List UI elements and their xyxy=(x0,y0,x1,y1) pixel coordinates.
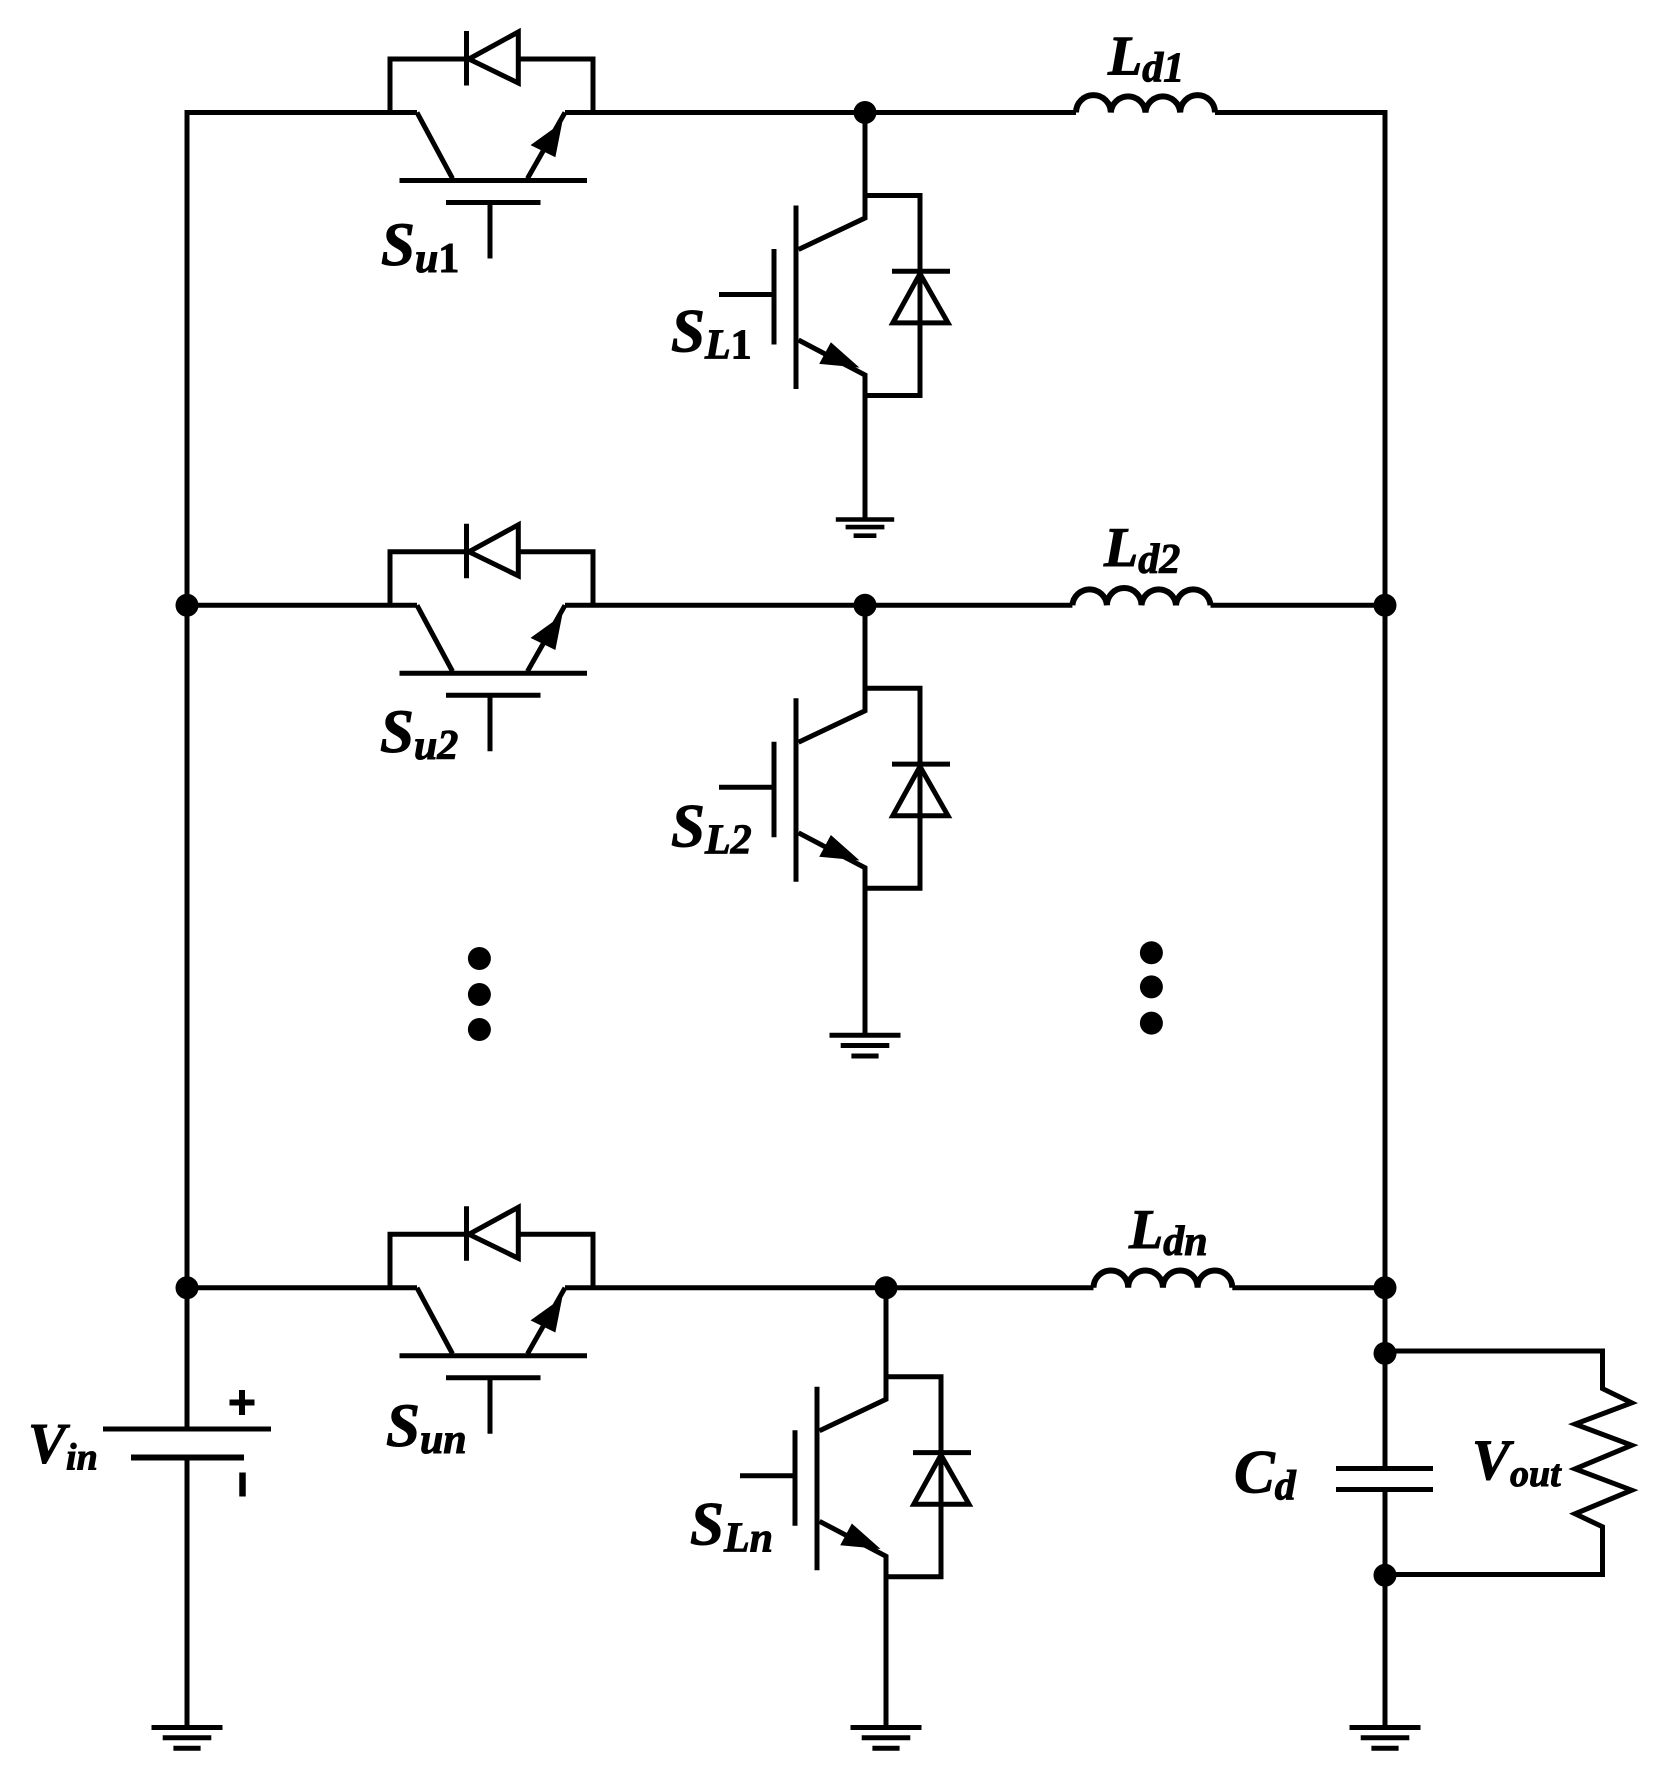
label Ld1 xyxy=(1107,26,1184,92)
node right bus row n (junction dot) xyxy=(1374,1276,1397,1299)
wire output node to load (top) xyxy=(1385,1349,1603,1354)
svg-text:Su2: Su2 xyxy=(380,699,458,769)
wire Sun emitter to phase node xyxy=(565,1285,1094,1290)
svg-text:Sun: Sun xyxy=(386,1393,467,1463)
diode DL2 (anti-parallel with SL2) xyxy=(865,688,950,888)
ground at SL2 emitter xyxy=(830,1035,901,1056)
resistor load (zigzag) xyxy=(1575,1349,1632,1575)
wire Ld2 to right output bus xyxy=(1211,603,1386,608)
ground at output bus xyxy=(1350,1728,1421,1749)
node output top (junction dot) xyxy=(1374,1342,1397,1365)
svg-text:Ld2: Ld2 xyxy=(1103,517,1180,583)
label Su1 xyxy=(381,212,459,282)
svg-text:Cd: Cd xyxy=(1234,1439,1297,1509)
diode DL1 (anti-parallel with SL1) xyxy=(865,196,950,396)
wire phase node to SLn collector xyxy=(820,1288,887,1431)
transistor Sun (upper IGBT) xyxy=(400,1288,588,1434)
svg-text:Su1: Su1 xyxy=(381,212,459,282)
battery Vin negative plate xyxy=(131,1455,244,1461)
transistor SLn (lower IGBT) xyxy=(740,1387,886,1728)
battery plus sign xyxy=(230,1390,255,1415)
wire Su2 emitter to phase node xyxy=(565,603,1072,608)
battery Vin positive plate xyxy=(103,1427,271,1432)
wire phase node to SL2 collector xyxy=(799,605,866,742)
svg-text:Ldn: Ldn xyxy=(1128,1199,1208,1265)
wire right output bus below Cd xyxy=(1383,1492,1388,1728)
wire Su1 emitter to phase node xyxy=(565,110,1076,115)
diode DLn (anti-parallel with SLn) xyxy=(886,1377,971,1577)
svg-text:Vout: Vout xyxy=(1472,1429,1562,1495)
label SL2 xyxy=(671,794,752,864)
label Ldn xyxy=(1128,1199,1208,1265)
svg-text:SLn: SLn xyxy=(690,1492,773,1562)
label Vout xyxy=(1472,1429,1562,1495)
ground at SL1 emitter xyxy=(836,520,894,536)
node left bus row n (junction dot) xyxy=(176,1276,199,1299)
wire Ld1 to right output bus xyxy=(1215,110,1385,115)
diode Dun (anti-parallel with Sun) xyxy=(390,1206,593,1288)
svg-text:Vin: Vin xyxy=(28,1413,98,1479)
node left bus row2 (junction dot) xyxy=(176,594,199,617)
wire phase node to SL1 collector xyxy=(799,113,866,250)
ground at Vin negative xyxy=(152,1728,223,1749)
wire Ldn to right output bus xyxy=(1232,1285,1385,1290)
ground at SLn emitter xyxy=(851,1728,922,1749)
label SLn xyxy=(690,1492,773,1562)
transistor Su2 (upper IGBT) xyxy=(400,605,588,751)
label SL1 xyxy=(671,299,752,369)
wire input bus to Su1 xyxy=(187,110,417,115)
transistor Su1 (upper IGBT) xyxy=(400,113,588,259)
label Ld2 xyxy=(1103,517,1180,583)
transistor SL2 (lower IGBT) xyxy=(719,698,865,1035)
wire input bus to Sun xyxy=(187,1285,417,1290)
svg-text:Ld1: Ld1 xyxy=(1107,26,1184,92)
node right bus row2 (junction dot) xyxy=(1374,594,1397,617)
inductor Ld1 xyxy=(1076,95,1215,112)
wire left input bus (vertical) xyxy=(185,110,190,1429)
ellipsis dots left (more phases) xyxy=(468,947,491,1041)
node phase 1 (junction dot) xyxy=(854,101,877,124)
svg-text:SL1: SL1 xyxy=(671,299,752,369)
label Vin xyxy=(28,1413,98,1479)
label Sun xyxy=(386,1393,467,1463)
label Cd xyxy=(1234,1439,1297,1509)
wire load to output bottom xyxy=(1385,1572,1605,1577)
node phase 2 (junction dot) xyxy=(854,594,877,617)
inductor Ldn xyxy=(1094,1270,1233,1287)
ellipsis dots right (more phases) xyxy=(1140,941,1163,1034)
capacitor Cd xyxy=(1336,1469,1433,1490)
wire input bus to Su2 xyxy=(187,603,417,608)
transistor SL1 (lower IGBT) xyxy=(719,206,865,520)
diode Du2 (anti-parallel with Su2) xyxy=(390,524,593,606)
node output bottom (junction dot) xyxy=(1374,1564,1397,1587)
wire right output bus (vertical) xyxy=(1383,110,1388,1466)
inductor Ld2 xyxy=(1072,588,1210,605)
label Su2 xyxy=(380,699,458,769)
svg-text:SL2: SL2 xyxy=(671,794,752,864)
wire left input bus below battery xyxy=(185,1458,190,1728)
battery minus sign xyxy=(239,1473,246,1497)
diode Du1 (anti-parallel with Su1) xyxy=(390,31,593,113)
node phase n (junction dot) xyxy=(875,1276,898,1299)
